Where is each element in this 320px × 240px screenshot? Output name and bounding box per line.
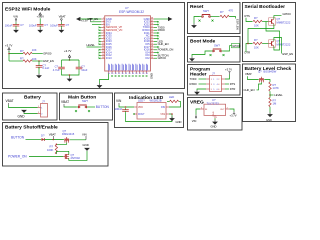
transistor Q3 BSS84 <box>258 69 277 82</box>
svg-text:10K: 10K <box>254 45 259 49</box>
junction <box>38 60 40 62</box>
svg-text:VIN: VIN <box>13 14 18 18</box>
svg-text:POWER_ON: POWER_ON <box>8 155 27 159</box>
wire <box>213 16 220 18</box>
wire <box>38 67 40 74</box>
svg-text:VBAT: VBAT <box>49 132 56 136</box>
wire <box>194 17 200 24</box>
diode D1 <box>41 133 45 141</box>
node BUTTON <box>11 135 41 139</box>
wire <box>15 21 17 24</box>
svg-text:100uF: 100uF <box>50 23 58 27</box>
node TXD0 <box>190 77 207 81</box>
transistor Q4 P-FET DMG3415 <box>62 129 75 143</box>
svg-text:470: 470 <box>229 8 234 12</box>
U1 right pin stubs <box>151 19 155 58</box>
svg-text:ESP_EN: ESP_EN <box>283 52 294 56</box>
svg-text:GPIO0: GPIO0 <box>283 12 292 16</box>
svg-text:39: 39 <box>128 73 130 75</box>
svg-text:Battery Shutoff/Enable: Battery Shutoff/Enable <box>5 125 58 131</box>
power +3.3V <box>37 13 45 19</box>
U1 bottom pad labels <box>108 64 147 71</box>
svg-text:DMG3415: DMG3415 <box>62 132 75 136</box>
wire VSS to ground <box>169 114 172 117</box>
box VREG <box>188 98 243 131</box>
svg-text:39: 39 <box>132 73 134 75</box>
LED1 WS2812B <box>134 99 169 119</box>
svg-text:LED?: LED? <box>138 99 145 103</box>
wire emitter cross down <box>248 24 274 43</box>
svg-text:TLV75733: TLV75733 <box>207 102 220 106</box>
node LEVEL <box>87 43 102 47</box>
resistor R5 10K <box>253 38 262 50</box>
svg-text:J?: J? <box>212 72 215 76</box>
svg-text:0.1uF: 0.1uF <box>42 66 49 70</box>
svg-text:GND: GND <box>18 115 26 119</box>
resistor R2 10K <box>20 56 37 62</box>
resistor R8 <box>167 100 179 102</box>
svg-text:+3.7V: +3.7V <box>230 114 237 118</box>
svg-text:Serial Bootloader: Serial Bootloader <box>245 4 286 10</box>
svg-text:GND: GND <box>149 73 153 79</box>
node DTR <box>225 87 235 91</box>
svg-text:Boot Mode: Boot Mode <box>190 39 216 45</box>
wire <box>214 118 216 120</box>
junction <box>53 139 55 141</box>
svg-text:C?: C? <box>20 23 24 27</box>
wire <box>89 106 95 108</box>
power +3.7V <box>230 109 237 118</box>
U1 right pin names <box>142 17 150 60</box>
wire emitter up <box>266 22 280 51</box>
svg-text:BSS84DW: BSS84DW <box>264 69 277 73</box>
bottom no-connect marks <box>111 75 147 77</box>
ground <box>59 28 65 33</box>
box Program Header <box>188 65 241 96</box>
ground <box>189 57 195 62</box>
svg-text:+3.7V: +3.7V <box>64 49 72 53</box>
node LED <box>154 39 163 43</box>
svg-text:GND: GND <box>83 143 89 147</box>
svg-text:Battery: Battery <box>24 95 41 101</box>
wire row2 <box>9 60 23 62</box>
svg-text:147K: 147K <box>273 86 279 90</box>
svg-text:ESP-WROOM-32: ESP-WROOM-32 <box>119 10 144 14</box>
transistor Q5 N-FET 2N7002 <box>63 153 80 160</box>
box Indication LED <box>115 93 184 128</box>
svg-text:MMBT2222: MMBT2222 <box>277 21 291 25</box>
svg-text:VIN: VIN <box>192 119 197 123</box>
svg-text:Reset: Reset <box>190 4 204 10</box>
module U1 ESP-WROOM-32 <box>105 6 151 71</box>
wire <box>269 107 271 113</box>
svg-text:Header: Header <box>190 72 207 78</box>
wire drain to VIN <box>70 139 87 141</box>
resistor R1 10K <box>20 48 37 55</box>
wire gate rail <box>56 143 66 145</box>
wire top rail <box>62 60 80 66</box>
no-connect <box>154 24 159 26</box>
box Battery Level Check <box>243 64 296 122</box>
ground <box>97 84 103 89</box>
wire bottom GND to ground <box>100 74 109 84</box>
svg-text:VDD: VDD <box>138 107 143 109</box>
svg-text:RTS: RTS <box>245 14 251 18</box>
SECTION_TITLES <box>5 4 292 131</box>
wire collector to ESP_EN <box>274 38 282 54</box>
svg-text:POWER_ON: POWER_ON <box>158 48 174 52</box>
junction <box>269 94 271 96</box>
ground <box>191 24 197 29</box>
junction <box>247 43 249 45</box>
svg-text:IO2: IO2 <box>145 56 150 60</box>
svg-text:BUTTON: BUTTON <box>11 135 25 139</box>
wire <box>262 43 269 45</box>
wire <box>69 59 71 61</box>
svg-text:10uF: 10uF <box>81 68 87 72</box>
capacitor C4 0.1uF <box>36 63 50 70</box>
resistor R4 10K <box>253 16 262 28</box>
svg-text:TXD0: TXD0 <box>190 77 197 81</box>
power VIN <box>13 14 18 22</box>
no-connect <box>154 32 159 34</box>
svg-text:DOUT: DOUT <box>138 114 145 116</box>
svg-text:39: 39 <box>122 73 124 75</box>
power flag VIN <box>116 99 122 105</box>
svg-text:GPIO0: GPIO0 <box>158 56 167 60</box>
svg-text:4.7uF: 4.7uF <box>53 68 60 72</box>
svg-text:39: 39 <box>142 73 144 75</box>
svg-text:10K: 10K <box>254 23 259 27</box>
ground <box>266 113 273 122</box>
node RXD0 <box>190 82 207 86</box>
no-connect <box>154 38 159 40</box>
svg-text:R?: R? <box>20 56 24 60</box>
svg-text:10K: 10K <box>32 48 37 52</box>
wire <box>32 60 43 62</box>
node VBAT <box>245 72 259 79</box>
ground <box>36 74 42 79</box>
svg-text:VBAT: VBAT <box>61 100 69 104</box>
node BUTTON <box>154 53 169 57</box>
svg-text:39: 39 <box>135 73 137 75</box>
power +3.7V <box>225 68 232 79</box>
svg-text:Q?: Q? <box>277 17 281 21</box>
node GPIO0 <box>154 56 166 60</box>
connector J2 2x3 <box>206 72 225 92</box>
wire <box>39 18 41 23</box>
power VBAT <box>59 14 66 22</box>
svg-text:DTR: DTR <box>230 87 236 91</box>
wire <box>264 80 270 83</box>
box Battery <box>3 93 58 120</box>
capacitor C7 100nF <box>115 107 129 113</box>
svg-text:J?: J? <box>42 100 45 104</box>
ground <box>13 28 19 33</box>
svg-text:CHK_EN: CHK_EN <box>244 88 255 92</box>
svg-text:C?: C? <box>66 23 70 27</box>
svg-text:VBAT: VBAT <box>59 14 66 18</box>
wire <box>192 51 211 57</box>
svg-text:DTR: DTR <box>245 51 251 55</box>
box Reset <box>188 3 241 34</box>
no-connect DOUT <box>133 113 135 115</box>
svg-text:Q?: Q? <box>258 69 262 73</box>
resistor R6 <box>269 82 279 91</box>
resistor R9 100K <box>47 145 58 154</box>
svg-text:ESP_EN: ESP_EN <box>236 19 240 30</box>
wire Q5 source to ground <box>69 151 87 161</box>
power flag VBAT <box>6 99 14 105</box>
svg-text:R?: R? <box>20 49 24 53</box>
svg-text:LEVEL: LEVEL <box>87 43 96 47</box>
U1 bottom pin stubs and numbers <box>109 71 147 74</box>
svg-text:SW?: SW? <box>82 99 88 103</box>
node POWER_ON <box>8 155 63 159</box>
node GPIO0 <box>232 43 242 48</box>
svg-text:100uF: 100uF <box>29 23 37 27</box>
svg-text:LEVEL: LEVEL <box>274 93 283 97</box>
resistor R7 <box>269 98 277 107</box>
junction <box>69 74 71 76</box>
wire cap to bottom rail <box>126 113 173 122</box>
capacitor C5 4.7uF <box>53 65 65 72</box>
svg-text:LED: LED <box>169 95 174 99</box>
box Boot Mode <box>188 37 241 63</box>
svg-text:VIN: VIN <box>116 99 122 103</box>
wire <box>119 105 134 107</box>
regulator U2 TLV75733 <box>200 98 230 119</box>
capacitor C1 100uF <box>5 23 24 28</box>
wire collector to GPIO0 <box>274 16 282 19</box>
svg-text:RTS: RTS <box>230 82 236 86</box>
wire <box>229 17 235 19</box>
svg-text:ESP32 WIFI Module: ESP32 WIFI Module <box>5 6 51 12</box>
ground <box>194 90 200 95</box>
wire <box>269 91 271 97</box>
svg-text:R?: R? <box>220 10 224 14</box>
wire <box>38 61 40 64</box>
power +3.3V to pin 2 <box>81 18 102 22</box>
wire <box>60 27 62 30</box>
svg-text:ESP_EN: ESP_EN <box>43 59 54 63</box>
power +3.7V bulk caps <box>64 49 72 60</box>
switch SW3 <box>75 99 90 112</box>
wire <box>9 105 38 108</box>
node CHK_EN <box>244 82 262 92</box>
ground <box>67 77 73 82</box>
wire <box>246 44 248 53</box>
svg-text:RXD0: RXD0 <box>158 28 166 32</box>
svg-text:GPIO0: GPIO0 <box>43 52 52 56</box>
svg-text:+3.7V: +3.7V <box>5 43 13 47</box>
ground <box>169 117 181 124</box>
svg-text:100K: 100K <box>47 148 53 152</box>
wire <box>32 53 43 55</box>
wire <box>262 21 269 23</box>
node ESP_EN to pin 3 <box>88 17 102 24</box>
switch SW1 <box>199 9 214 22</box>
ground (tip down) <box>18 110 27 119</box>
box Battery Shutoff/Enable <box>3 123 109 167</box>
svg-text:MMBT2222: MMBT2222 <box>277 43 291 47</box>
svg-text:VSS: VSS <box>160 114 165 116</box>
svg-text:DIN: DIN <box>161 107 165 109</box>
svg-text:39: 39 <box>146 73 148 75</box>
wire bottom rail <box>62 70 80 77</box>
U1 right pin numbers <box>151 18 154 59</box>
wire <box>45 139 64 141</box>
svg-text:GPIO0: GPIO0 <box>232 44 241 48</box>
box ESP32 WIFI Module <box>3 3 185 89</box>
connector J1 battery <box>38 100 48 117</box>
SECTION_BOXES <box>3 3 296 167</box>
svg-text:R?: R? <box>254 16 258 20</box>
svg-text:VBAT: VBAT <box>245 72 252 76</box>
power +3.7V pullups <box>5 43 13 52</box>
node TXD0 <box>154 25 165 29</box>
node CHK_EN <box>154 42 169 46</box>
svg-text:39: 39 <box>118 73 120 75</box>
svg-text:C?: C? <box>44 23 48 27</box>
junction <box>125 106 127 108</box>
box Main Button <box>60 93 113 120</box>
svg-text:10K: 10K <box>32 57 37 61</box>
power flag VIN <box>82 132 87 139</box>
node RTS <box>225 82 235 86</box>
svg-text:+3.7V: +3.7V <box>225 68 232 72</box>
svg-text:IO13: IO13 <box>106 56 112 60</box>
wire <box>246 18 253 22</box>
ground <box>37 28 43 33</box>
svg-text:ESP_EN: ESP_EN <box>88 17 99 21</box>
svg-text:BUTTON: BUTTON <box>96 105 110 109</box>
wire R9 to Q5 drain <box>56 151 68 154</box>
transistor Q2 MMBT2222 <box>269 39 291 47</box>
U1 left pin numbers <box>102 18 105 59</box>
junction <box>56 144 58 146</box>
U1 left pin stubs <box>101 19 105 58</box>
svg-text:2N7002: 2N7002 <box>71 156 81 160</box>
wire <box>60 21 62 24</box>
svg-text:RXD0: RXD0 <box>190 82 198 86</box>
resistor R3 470 <box>220 8 233 17</box>
svg-text:GND: GND <box>211 125 217 129</box>
ground flag right of pin 38 <box>154 17 172 21</box>
svg-text:R?: R? <box>254 38 258 42</box>
svg-text:39: 39 <box>125 73 127 75</box>
svg-text:SW?: SW? <box>203 9 209 13</box>
node RXD0 <box>154 28 165 32</box>
svg-text:Q?: Q? <box>277 39 281 43</box>
ground (tip down) <box>83 143 90 151</box>
wire <box>224 46 232 51</box>
no-connect <box>154 46 159 48</box>
ground flag left of pin 1 <box>76 17 101 21</box>
wire <box>64 106 76 109</box>
svg-text:39: 39 <box>115 73 117 75</box>
svg-text:U?: U? <box>212 98 216 102</box>
transistor Q1 MMBT2222 <box>269 17 291 25</box>
capacitor C2 100uF <box>29 23 48 28</box>
power flag VBAT <box>61 100 69 107</box>
switch SW2 <box>210 44 225 57</box>
capacitor C3 100uF <box>50 23 69 28</box>
svg-text:WS2812B: WS2812B <box>150 99 162 103</box>
wire <box>39 27 41 30</box>
capacitor C6 10uF <box>76 65 88 72</box>
junction <box>8 53 10 55</box>
wire to ground <box>24 112 38 115</box>
junction <box>171 113 173 115</box>
no-connect <box>154 21 159 23</box>
ground <box>211 120 218 129</box>
svg-text:39: 39 <box>111 73 113 75</box>
svg-text:GND: GND <box>176 120 182 124</box>
svg-text:D?: D? <box>41 133 45 137</box>
no-connect <box>154 35 159 37</box>
wire <box>15 27 17 30</box>
node LEVEL <box>270 93 283 97</box>
svg-text:CHK_EN: CHK_EN <box>158 42 169 46</box>
svg-text:SW?: SW? <box>214 44 220 48</box>
svg-text:OUT: OUT <box>220 109 225 111</box>
wire DIN to resistor <box>169 101 181 107</box>
svg-text:VBAT: VBAT <box>6 99 14 103</box>
wire pin5 to ground <box>197 89 206 90</box>
svg-text:39: 39 <box>139 73 141 75</box>
left no-connect marks <box>98 27 101 60</box>
U1 left pin names <box>106 17 123 60</box>
svg-text:GND: GND <box>266 118 272 122</box>
svg-text:VREG: VREG <box>190 100 204 106</box>
power flag VBAT <box>49 132 56 139</box>
box Serial Bootloader <box>243 3 296 62</box>
svg-text:Q?: Q? <box>71 153 75 157</box>
junction <box>69 59 71 61</box>
svg-text:100nF: 100nF <box>115 107 123 111</box>
svg-text:100uF: 100uF <box>5 23 13 27</box>
no-connect <box>154 52 159 54</box>
wire <box>9 51 23 61</box>
power flag VIN <box>192 109 200 123</box>
svg-text:VIN: VIN <box>82 132 87 136</box>
node POWER_ON <box>154 48 173 52</box>
